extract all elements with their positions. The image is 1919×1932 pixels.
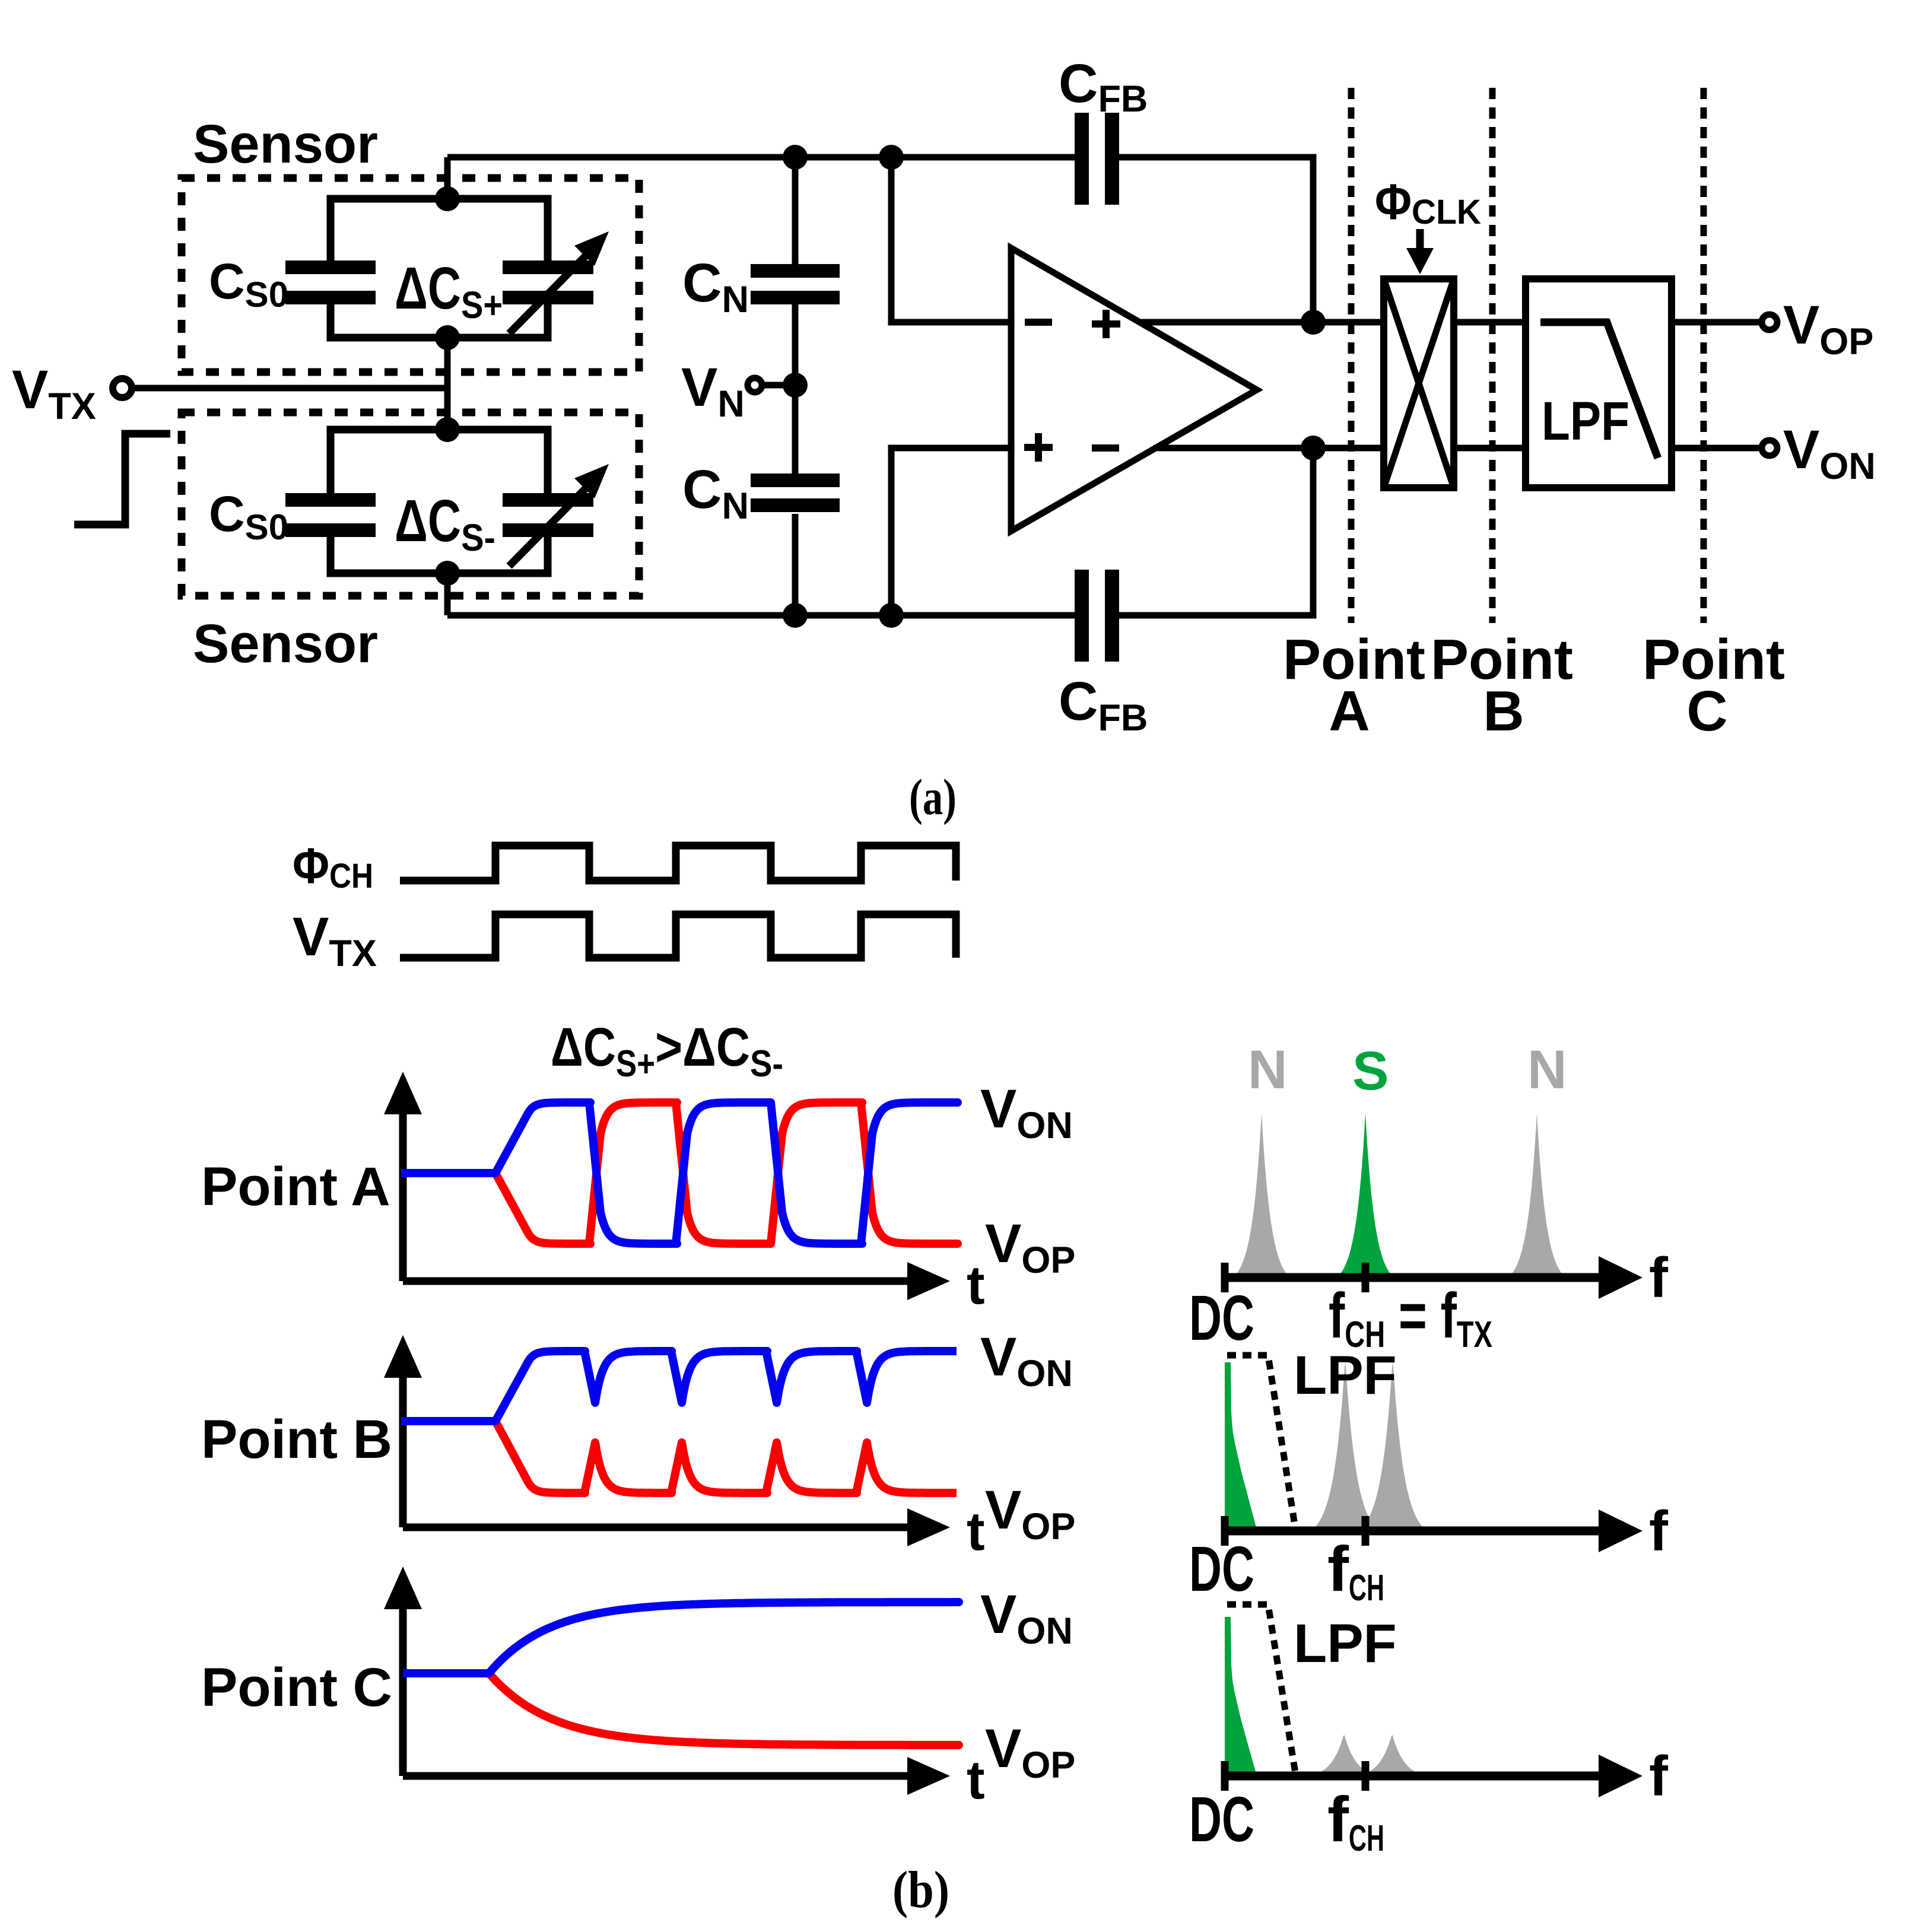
wire op-amp out-	[1154, 445, 1384, 452]
Point C red VOP curve	[403, 1673, 959, 1745]
dashed line Point C	[1701, 88, 1707, 623]
svg-text:N: N	[1527, 1040, 1567, 1100]
spectrum1 N peak right	[1508, 1113, 1565, 1278]
terminal VOP	[1762, 314, 1777, 330]
svg-text:Point C: Point C	[201, 1657, 392, 1718]
node out+/feedback	[1301, 310, 1326, 335]
node top rail / op-amp feed	[879, 145, 904, 170]
spectrum3 noise peak left	[1310, 1735, 1378, 1776]
node VN	[783, 373, 808, 398]
spectrum1 DC tick	[1221, 1263, 1229, 1292]
capacitor CS0 (bottom sensor)	[285, 493, 376, 507]
wire top rail	[447, 154, 1075, 161]
wire bottom-sensor parallel bottom rail	[331, 537, 548, 573]
op-amp plus (out+)	[1092, 320, 1120, 328]
svg-text:t: t	[967, 1255, 985, 1315]
spectrum2 noise peak right	[1360, 1362, 1425, 1530]
chopper cross	[1384, 279, 1454, 488]
dashed box bottom sensor	[182, 412, 639, 596]
wire LPF to VOP	[1672, 319, 1760, 326]
wire chopper to LPF (bottom)	[1454, 445, 1526, 452]
Point C blue VON curve	[403, 1602, 959, 1673]
spectrum3 LPF dashed response	[1227, 1604, 1295, 1773]
spectrum1 S peak	[1337, 1113, 1394, 1278]
node top rail / CN	[783, 145, 808, 170]
Point B red VOP curve	[401, 1421, 957, 1493]
svg-text:C: C	[1686, 679, 1727, 743]
spectrum3 fCH tick	[1362, 1761, 1370, 1791]
step waveform symbol at VTX input	[74, 434, 170, 525]
wire bottom-sensor parallel top rail	[331, 430, 548, 493]
spectrum3 green signal at DC	[1225, 1617, 1257, 1776]
svg-text:f: f	[1649, 1499, 1669, 1563]
svg-text:(a): (a)	[909, 768, 957, 825]
capacitor CFB (top)	[1075, 113, 1089, 205]
Point C graph y-axis	[399, 1599, 407, 1776]
Point A graph x-axis	[403, 1278, 917, 1285]
spectrum2 DC tick	[1221, 1516, 1229, 1546]
wire top-sensor parallel top rail	[331, 199, 548, 260]
svg-text:(b): (b)	[892, 1861, 949, 1919]
spectrum2 green signal at DC	[1225, 1362, 1257, 1530]
wire stem top-sensor to top rail	[444, 157, 451, 199]
spectrum2 fCH tick	[1362, 1516, 1370, 1546]
spectrum1 N peak left	[1233, 1113, 1290, 1278]
svg-text:DC: DC	[1189, 1533, 1254, 1604]
capacitor CN (bottom)	[751, 474, 840, 487]
svg-text:t: t	[967, 1501, 985, 1562]
wire op-amp out+	[1138, 319, 1384, 326]
svg-text:S: S	[1352, 1041, 1389, 1101]
svg-text:f: f	[1649, 1744, 1669, 1808]
chopper (mixer) box	[1384, 279, 1454, 488]
wire VN	[762, 382, 789, 389]
capacitor dCS+ (variable, top sensor)	[503, 260, 593, 274]
svg-text:DC: DC	[1189, 1783, 1254, 1855]
wire LPF to VON	[1672, 445, 1760, 452]
svg-text:Sensor: Sensor	[193, 114, 378, 174]
Point B graph x-axis	[403, 1524, 917, 1531]
spectrum3 noise peak right	[1358, 1735, 1426, 1776]
op-amp minus (out-)	[1092, 444, 1119, 452]
LPF box	[1526, 279, 1672, 488]
wire VTX to sensors node	[132, 385, 447, 392]
waveform VTX	[400, 914, 956, 958]
spectrum3 f-axis	[1225, 1772, 1610, 1781]
node top-sensor bottom	[435, 325, 460, 350]
wire bottom rail	[447, 612, 1075, 619]
node bottom-sensor bottom	[435, 561, 460, 586]
capacitor CS0 (top sensor)	[285, 260, 376, 274]
spectrum3 DC tick	[1221, 1761, 1229, 1791]
Point A red VOP curve	[401, 1102, 958, 1244]
dashed box top sensor	[182, 178, 639, 372]
svg-text:LPF: LPF	[1542, 391, 1629, 452]
spectrum2 LPF dashed response	[1227, 1355, 1295, 1525]
svg-text:N: N	[1248, 1040, 1287, 1100]
op-amp plus (in+)	[1024, 444, 1053, 451]
op-amp minus (in-)	[1025, 319, 1052, 326]
waveform PhiCH	[400, 846, 956, 881]
wire stem bottom-sensor to bottom rail	[444, 573, 451, 615]
terminal VON	[1762, 440, 1777, 456]
svg-text:Sensor: Sensor	[193, 614, 378, 674]
svg-text:LPF: LPF	[1294, 1613, 1397, 1674]
arrow PhiCLK to chopper	[1416, 229, 1424, 258]
spectrum2 noise peak left	[1313, 1362, 1378, 1530]
wire CN chain	[792, 157, 799, 264]
variable-cap arrow (top sensor)	[509, 255, 586, 333]
svg-text:Point A: Point A	[201, 1156, 390, 1217]
Point B blue VON curve	[401, 1351, 957, 1421]
capacitor dCS- (variable, bottom sensor)	[503, 493, 593, 507]
Point A blue VON curve	[401, 1102, 958, 1244]
op-amp U1	[1011, 248, 1257, 531]
svg-text:B: B	[1483, 679, 1524, 743]
svg-text:ΔCS+>ΔCS-: ΔCS+>ΔCS-	[551, 1017, 783, 1085]
spectrum1 f-axis	[1225, 1273, 1610, 1282]
capacitor CFB (bottom)	[1075, 570, 1089, 662]
svg-text:t: t	[967, 1750, 985, 1810]
wire stem between sensors (VTX node)	[444, 338, 451, 430]
node out-/feedback	[1301, 436, 1326, 460]
wire top-sensor parallel bottom rail	[331, 304, 548, 338]
capacitor CN (top)	[751, 264, 840, 278]
wire to op-amp non-inverting input	[891, 448, 1011, 615]
svg-text:DC: DC	[1189, 1282, 1254, 1353]
Point B graph y-axis	[399, 1368, 407, 1527]
wire chopper to LPF (top)	[1454, 319, 1526, 326]
Point A graph y-axis	[399, 1104, 407, 1281]
spectrum2 f-axis	[1225, 1527, 1610, 1536]
spectrum1 fCH tick	[1362, 1263, 1370, 1292]
variable-cap arrow (bottom sensor)	[509, 488, 586, 566]
svg-text:f: f	[1649, 1246, 1669, 1310]
node bottom rail / CN	[783, 603, 808, 628]
svg-text:LPF: LPF	[1294, 1345, 1397, 1406]
terminal VN	[748, 378, 762, 392]
Point C graph x-axis	[403, 1772, 917, 1780]
node top-sensor top	[435, 186, 460, 211]
node bottom-sensor top	[435, 417, 460, 442]
node bottom rail / op-amp feed	[879, 603, 904, 628]
svg-text:Point B: Point B	[201, 1409, 392, 1470]
input terminal VTX	[113, 379, 132, 398]
LPF response symbol	[1540, 322, 1658, 458]
wire to op-amp inverting input	[891, 157, 1011, 322]
svg-text:A: A	[1329, 679, 1370, 743]
dashed line Point B	[1489, 88, 1496, 623]
dashed line Point A	[1348, 88, 1355, 623]
